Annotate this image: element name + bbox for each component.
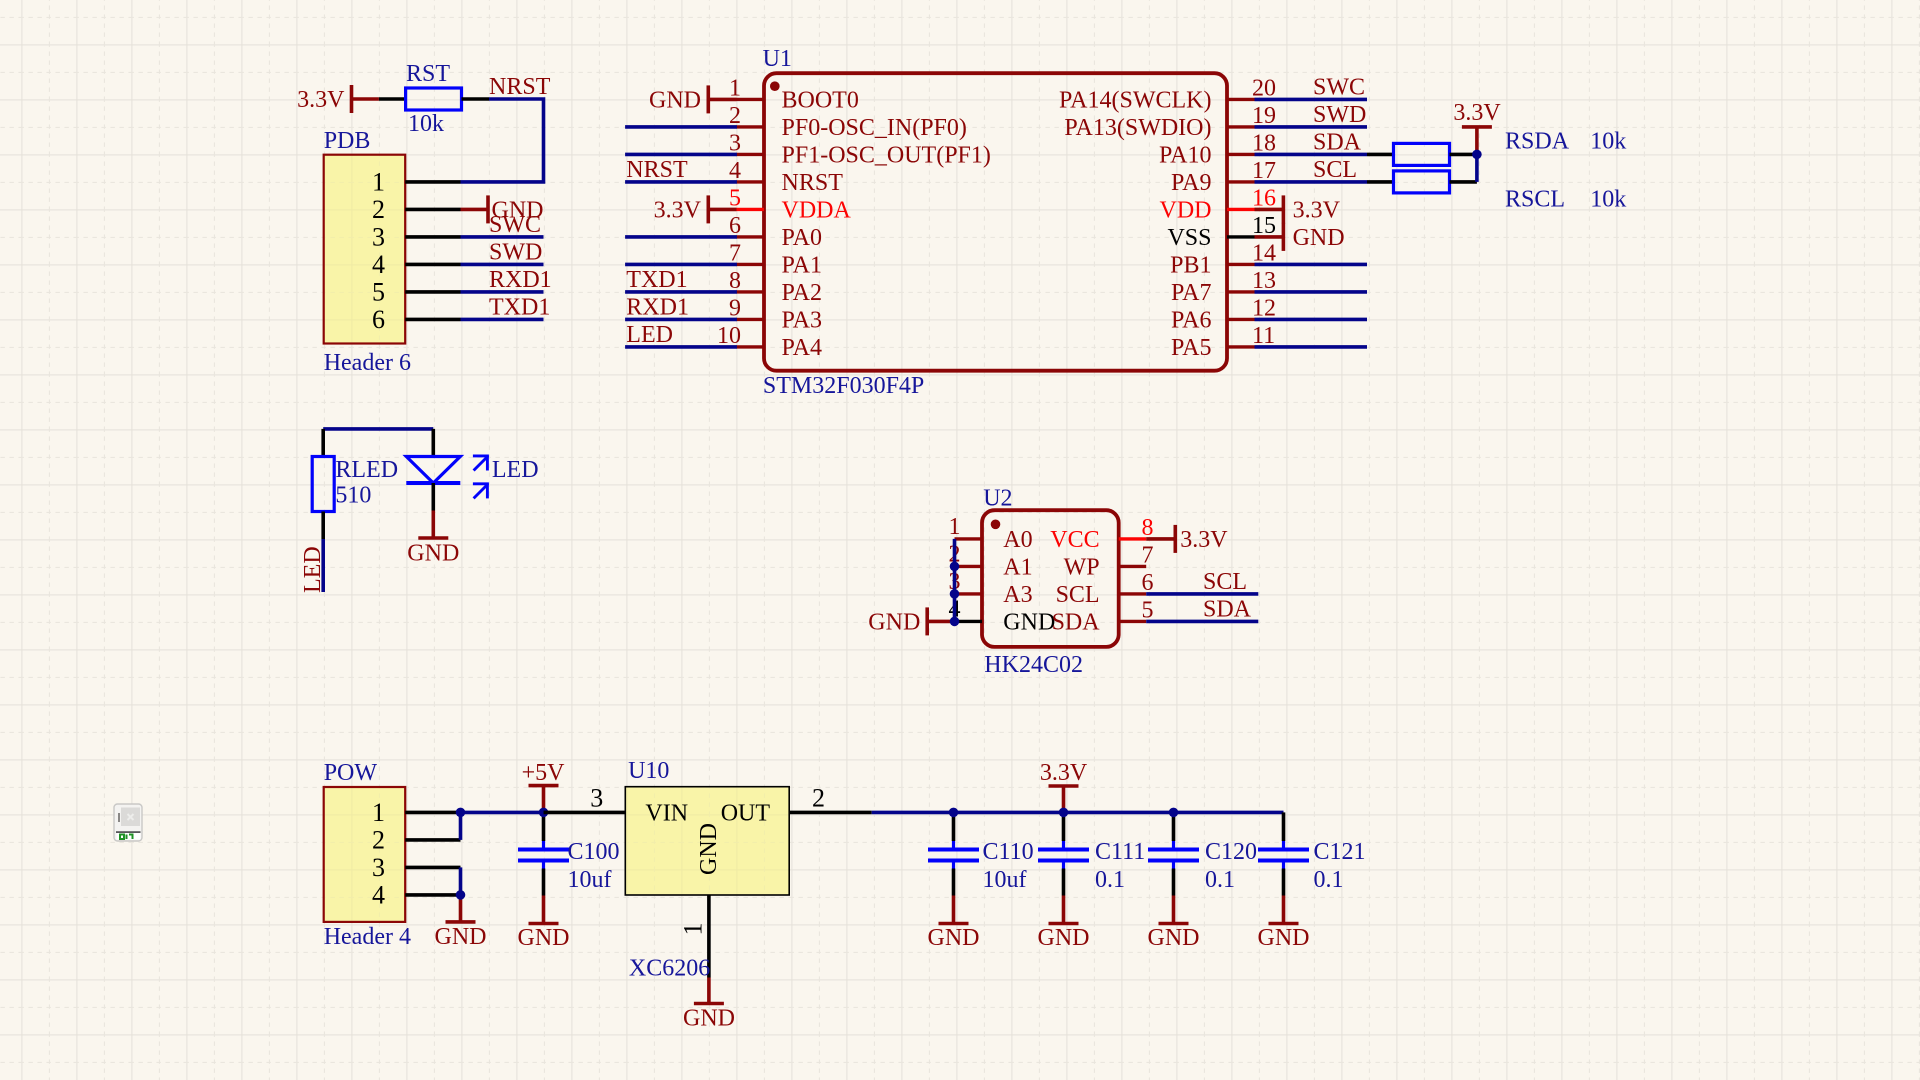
svg-text:PB1: PB1 <box>1170 252 1211 278</box>
svg-text:Header 4: Header 4 <box>324 924 411 950</box>
svg-text:18: 18 <box>1252 130 1276 156</box>
svg-text:SWC: SWC <box>489 212 541 238</box>
svg-text:PA6: PA6 <box>1171 307 1211 333</box>
svg-text:A0: A0 <box>1003 527 1032 553</box>
svg-text:2: 2 <box>729 103 741 129</box>
svg-text:C100: C100 <box>568 839 620 865</box>
svg-text:5: 5 <box>372 278 385 307</box>
svg-text:RSCL: RSCL <box>1505 186 1565 212</box>
svg-text:POW: POW <box>324 760 378 786</box>
svg-text:A3: A3 <box>1003 582 1032 608</box>
svg-text:BOOT0: BOOT0 <box>782 87 859 113</box>
svg-text:PA2: PA2 <box>782 280 822 306</box>
svg-text:VDD: VDD <box>1160 197 1212 223</box>
svg-text:3: 3 <box>372 853 385 882</box>
svg-text:7: 7 <box>1142 542 1154 568</box>
svg-text:3.3V: 3.3V <box>654 197 702 223</box>
svg-text:3.3V: 3.3V <box>297 87 345 113</box>
svg-text:GND: GND <box>407 541 459 567</box>
svg-text:RXD1: RXD1 <box>489 267 552 293</box>
svg-text:1: 1 <box>729 75 741 101</box>
svg-text:4: 4 <box>372 881 385 910</box>
svg-text:Header 6: Header 6 <box>324 350 411 376</box>
svg-text:LED: LED <box>300 546 326 593</box>
svg-text:VCC: VCC <box>1050 527 1099 553</box>
svg-text:SCL: SCL <box>1313 157 1357 183</box>
svg-text:7: 7 <box>729 240 741 266</box>
svg-text:PA7: PA7 <box>1171 280 1211 306</box>
svg-text:PA14(SWCLK): PA14(SWCLK) <box>1059 87 1211 113</box>
svg-text:PF0-OSC_IN(PF0): PF0-OSC_IN(PF0) <box>782 115 967 141</box>
svg-text:RST: RST <box>406 61 450 87</box>
svg-text:3: 3 <box>372 223 385 252</box>
svg-text:LED: LED <box>626 322 673 348</box>
svg-text:PA5: PA5 <box>1171 335 1211 361</box>
svg-text:3: 3 <box>590 783 603 812</box>
svg-text:0.1: 0.1 <box>1205 867 1235 893</box>
svg-text:10uf: 10uf <box>568 867 612 893</box>
svg-text:17: 17 <box>1252 158 1276 184</box>
svg-text:GND: GND <box>868 609 920 635</box>
svg-text:GND: GND <box>1293 225 1345 251</box>
svg-text:15: 15 <box>1252 213 1276 239</box>
svg-text:TXD1: TXD1 <box>489 294 550 320</box>
svg-text:VSS: VSS <box>1167 225 1211 251</box>
svg-text:GND: GND <box>683 1006 735 1032</box>
svg-text:8: 8 <box>1142 515 1154 541</box>
svg-text:GND: GND <box>435 924 487 950</box>
svg-text:1: 1 <box>949 514 961 540</box>
svg-text:3.3V: 3.3V <box>1040 760 1088 786</box>
svg-text:2: 2 <box>812 783 825 812</box>
svg-text:NRST: NRST <box>626 157 688 183</box>
svg-text:PA3: PA3 <box>782 307 822 333</box>
svg-text:GND: GND <box>1148 925 1200 951</box>
svg-text:C110: C110 <box>983 839 1034 865</box>
svg-text:VDDA: VDDA <box>782 197 852 223</box>
svg-text:LED: LED <box>492 457 539 483</box>
svg-text:C111: C111 <box>1095 839 1145 865</box>
svg-text:6: 6 <box>372 305 385 334</box>
svg-text:11: 11 <box>1252 323 1275 349</box>
svg-text:10k: 10k <box>1590 128 1626 154</box>
svg-text:3.3V: 3.3V <box>1293 197 1341 223</box>
svg-text:14: 14 <box>1252 240 1276 266</box>
svg-text:13: 13 <box>1252 268 1276 294</box>
svg-text:3.3V: 3.3V <box>1453 100 1501 126</box>
svg-text:HK24C02: HK24C02 <box>984 652 1083 678</box>
svg-text:10: 10 <box>717 323 741 349</box>
svg-text:STM32F030F4P: STM32F030F4P <box>763 373 924 399</box>
svg-text:WP: WP <box>1064 554 1100 580</box>
svg-text:SDA: SDA <box>1052 609 1101 635</box>
svg-text:GND: GND <box>518 925 570 951</box>
svg-text:NRST: NRST <box>782 170 844 196</box>
svg-text:6: 6 <box>729 213 741 239</box>
svg-text:19: 19 <box>1252 103 1276 129</box>
svg-text:4: 4 <box>729 158 741 184</box>
svg-text:GND: GND <box>696 823 722 875</box>
svg-text:3.3V: 3.3V <box>1180 527 1228 553</box>
svg-text:A1: A1 <box>1003 554 1032 580</box>
svg-text:9: 9 <box>729 295 741 321</box>
svg-text:2: 2 <box>372 826 385 855</box>
svg-text:4: 4 <box>372 250 385 279</box>
svg-text:5: 5 <box>1142 597 1154 623</box>
svg-text:SWC: SWC <box>1313 74 1365 100</box>
svg-text:10k: 10k <box>408 111 444 137</box>
svg-text:OUT: OUT <box>721 800 771 826</box>
svg-text:1: 1 <box>372 798 385 827</box>
svg-text:SDA: SDA <box>1203 596 1252 622</box>
svg-text:8: 8 <box>729 268 741 294</box>
svg-text:U2: U2 <box>983 486 1012 512</box>
svg-text:PA0: PA0 <box>782 225 822 251</box>
svg-text:PA4: PA4 <box>782 335 822 361</box>
svg-text:PA1: PA1 <box>782 252 822 278</box>
svg-text:0.1: 0.1 <box>1095 867 1125 893</box>
svg-text:GND: GND <box>1038 925 1090 951</box>
svg-text:6: 6 <box>1142 570 1154 596</box>
svg-text:10k: 10k <box>1590 186 1626 212</box>
svg-text:U1: U1 <box>763 46 792 72</box>
svg-text:PA13(SWDIO): PA13(SWDIO) <box>1064 115 1211 141</box>
svg-text:VIN: VIN <box>645 800 688 826</box>
svg-text:16: 16 <box>1252 185 1276 211</box>
svg-text:1: 1 <box>372 168 385 197</box>
svg-text:SWD: SWD <box>489 239 542 265</box>
svg-text:RSDA: RSDA <box>1505 128 1570 154</box>
svg-text:PA10: PA10 <box>1159 142 1211 168</box>
svg-text:5: 5 <box>729 185 741 211</box>
svg-text:12: 12 <box>1252 295 1276 321</box>
svg-text:RXD1: RXD1 <box>626 294 689 320</box>
svg-text:SWD: SWD <box>1313 102 1366 128</box>
svg-text:PA9: PA9 <box>1171 170 1211 196</box>
svg-text:TXD1: TXD1 <box>626 267 687 293</box>
svg-text:PDB: PDB <box>324 128 371 154</box>
svg-text:SCL: SCL <box>1056 582 1100 608</box>
svg-text:GND: GND <box>1003 609 1055 635</box>
svg-text:SDA: SDA <box>1313 129 1362 155</box>
svg-text:510: 510 <box>335 482 371 508</box>
svg-text:1: 1 <box>679 923 708 936</box>
svg-text:U10: U10 <box>628 758 669 784</box>
svg-text:GND: GND <box>649 87 701 113</box>
svg-text:SCL: SCL <box>1203 569 1247 595</box>
svg-text:10uf: 10uf <box>983 867 1027 893</box>
svg-text:C120: C120 <box>1205 839 1257 865</box>
svg-text:3: 3 <box>729 130 741 156</box>
svg-text:+5V: +5V <box>522 760 566 786</box>
svg-text:2: 2 <box>372 195 385 224</box>
svg-text:RLED: RLED <box>335 457 398 483</box>
svg-text:PF1-OSC_OUT(PF1): PF1-OSC_OUT(PF1) <box>782 142 991 168</box>
svg-text:GND: GND <box>1258 925 1310 951</box>
svg-text:0.1: 0.1 <box>1314 867 1344 893</box>
svg-text:NRST: NRST <box>489 74 551 100</box>
svg-text:GND: GND <box>928 925 980 951</box>
svg-text:C121: C121 <box>1314 839 1366 865</box>
svg-text:20: 20 <box>1252 75 1276 101</box>
svg-text:XC6206: XC6206 <box>629 956 710 982</box>
